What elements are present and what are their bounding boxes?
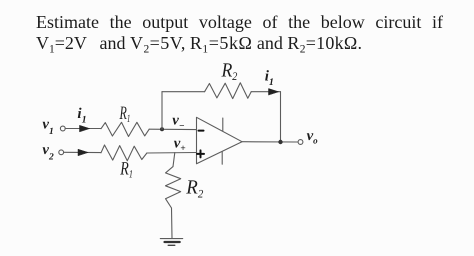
svg-text:i1: i1 bbox=[265, 69, 274, 89]
wire bbox=[162, 91, 205, 93]
wire bbox=[280, 92, 282, 142]
resistor R2 feedback bbox=[205, 83, 252, 99]
svg-text:v−: v− bbox=[172, 113, 185, 132]
non-inverting input marker bbox=[197, 150, 204, 157]
wire bbox=[147, 152, 197, 155]
wire bbox=[65, 128, 101, 130]
terminal vo bbox=[298, 140, 303, 145]
inverting input marker bbox=[199, 130, 204, 132]
wire bbox=[149, 128, 196, 130]
wire bbox=[251, 91, 280, 93]
svg-text:R2: R2 bbox=[185, 177, 203, 201]
svg-text:R1: R1 bbox=[120, 158, 133, 180]
svg-text:v1: v1 bbox=[42, 117, 53, 138]
resistor R2 to ground bbox=[166, 167, 181, 208]
op-amp U1 bbox=[197, 117, 243, 164]
current arrow i1 feedback bbox=[269, 89, 279, 95]
wire bbox=[171, 208, 174, 238]
svg-text:v2: v2 bbox=[42, 142, 54, 163]
wire bbox=[173, 153, 175, 167]
terminal v2 bbox=[59, 150, 64, 155]
power stub bottom bbox=[221, 152, 223, 164]
svg-text:R2: R2 bbox=[221, 60, 238, 83]
svg-text:vo: vo bbox=[307, 128, 319, 146]
resistor R1 bbox=[101, 122, 149, 136]
wire bbox=[64, 151, 101, 153]
svg-text:R1: R1 bbox=[119, 103, 130, 125]
ground bbox=[160, 239, 182, 246]
question text line 1 bbox=[36, 12, 443, 32]
wire bbox=[161, 92, 163, 130]
node output junction bbox=[278, 140, 282, 144]
power stub top bbox=[222, 118, 224, 131]
current arrow bbox=[78, 149, 88, 155]
svg-text:i1: i1 bbox=[77, 106, 86, 126]
terminal v1 bbox=[60, 126, 65, 131]
current arrow i1 bbox=[80, 125, 90, 131]
node v- junction bbox=[160, 127, 164, 131]
question text line 2 bbox=[36, 33, 443, 53]
svg-text:v+: v+ bbox=[174, 135, 186, 154]
resistor R1 bottom bbox=[101, 145, 147, 161]
wire bbox=[242, 141, 298, 143]
